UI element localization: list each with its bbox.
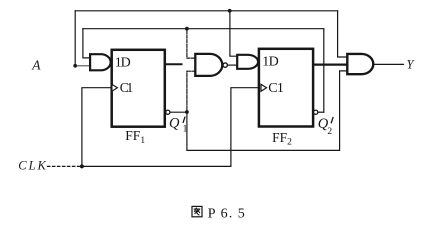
wire CLK up to FF2 C1 [231,88,259,167]
wire FF1 Q output stub [165,63,182,65]
svg-text:1: 1 [183,124,188,134]
node CLK junction dot [80,164,84,168]
wire U4 output to Y [374,63,404,65]
wire net-Q2bar drop to U2 top input [187,31,195,59]
wire Q2bar stub from bubble [318,111,324,113]
flip-flop FF2 Q-bar bubble [314,110,318,114]
node Q1bar junction dot [185,110,189,114]
node A junction dot [73,64,77,68]
wire FF2 Q to U4 middle input [313,63,348,65]
wire CLK up to FF1 C1 [82,88,112,167]
nand-gate U2 body [195,54,222,76]
flip-flop FF2 box [259,49,313,127]
svg-text:C1: C1 [268,81,284,96]
wire net-Q2bar right vertical [323,29,325,113]
flip-flop FF2 clock triangle [261,84,267,91]
node wire2-U2 junction dot [185,27,189,31]
wire Q1bar stub from bubble [170,111,187,113]
svg-text:1D: 1D [262,54,279,69]
flip-flop FF1 clock triangle [112,84,118,91]
svg-text:FF2: FF2 [272,130,292,148]
wire CLK horizontal [82,165,231,167]
wire net-A drop to U4 top input [338,11,348,57]
wire net-A top horizontal [75,10,337,12]
nand-gate U2 output bubble [223,63,227,67]
svg-text:A: A [31,58,41,73]
wire CLK dotted lead [48,165,80,167]
svg-text:2: 2 [327,127,332,137]
wire U2 output to G2 [228,64,238,66]
svg-text:FF1: FF1 [125,128,145,146]
wire U2 to U2-lower input from Q1bar [187,71,195,110]
wire A to G1 lower input [77,65,91,67]
svg-text:Y: Y [407,58,416,72]
svg-text:P 6. 5: P 6. 5 [208,206,245,221]
wire net-A left vertical [74,11,76,65]
node wire1-G2 junction dot [228,9,232,13]
wire net-Q2bar drop to G1 top input [83,29,91,58]
wire net-Q2bar horizontal [83,28,324,30]
wire net-A drop to G2 top input [230,11,237,56]
flip-flop FF1 Q-bar bubble [166,110,170,114]
flip-flop FF1 box [112,50,165,127]
caption CJK glyph tu (figure) [192,206,202,216]
and-gate U4 output gate [347,54,373,74]
svg-text:CLK: CLK [18,159,46,173]
wire net-Q1bar down across and up to U4 bottom input [187,71,347,150]
and-gate G2 at FF2 1D input [237,55,258,69]
svg-text:C1: C1 [120,80,134,95]
svg-text:Q: Q [169,115,180,131]
svg-text:1D: 1D [115,55,131,70]
and-gate G1 at FF1 1D input [90,54,111,70]
